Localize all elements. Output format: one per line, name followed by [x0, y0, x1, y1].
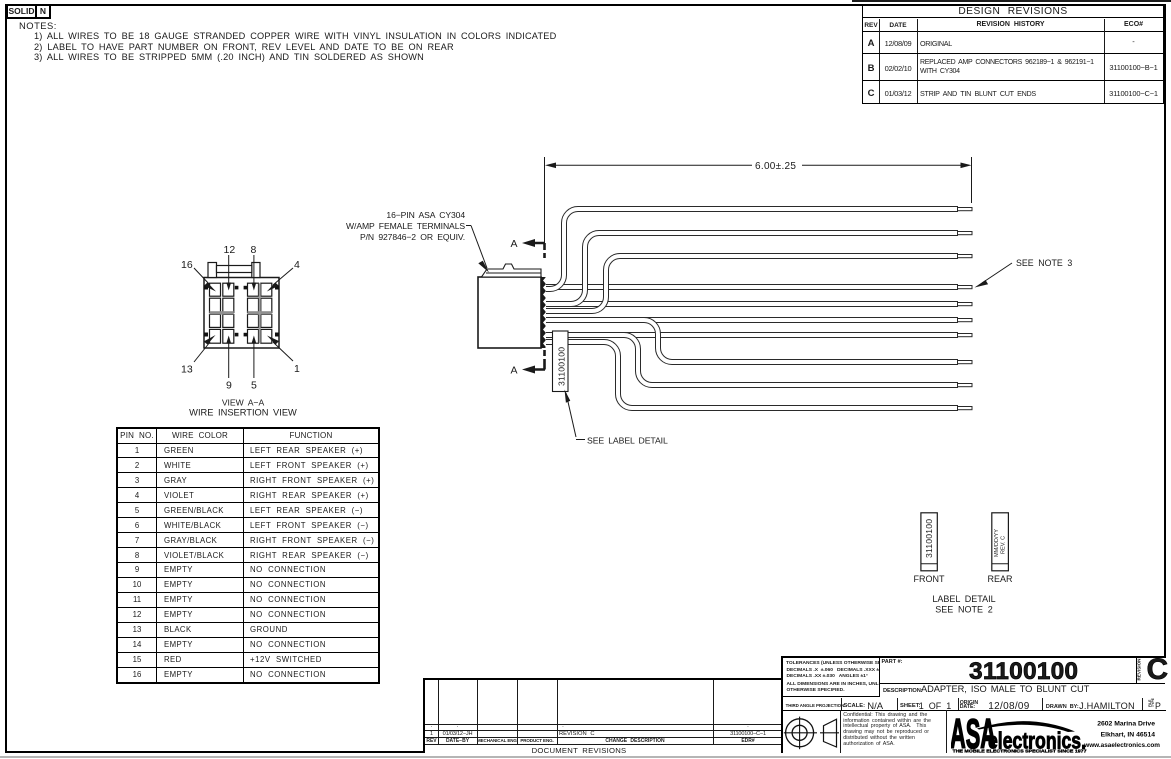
- svg-text:1: 1: [294, 363, 300, 375]
- title block: [781, 656, 1166, 754]
- svg-text:9: 9: [226, 380, 232, 392]
- leader SEE LABEL DETAIL: [565, 390, 668, 446]
- part number cell: [880, 658, 1136, 684]
- DOCUMENT REVISIONS table: [423, 678, 783, 753]
- wire W3 rise to level 256: [545, 256, 958, 311]
- pin number callouts for view A-A: [181, 244, 300, 392]
- connector J1 front view (VIEW A-A): [204, 263, 279, 349]
- top latch tabs: [208, 263, 217, 278]
- scanner edge line bottom: [0, 756, 1171, 758]
- wire W4 straight pin level 287: [545, 284, 958, 290]
- pin 12 label: [224, 244, 236, 291]
- notes: [19, 20, 57, 31]
- row lines: [425, 724, 783, 725]
- svg-text:31100100: 31100100: [557, 347, 567, 386]
- row 1 data: [425, 731, 438, 737]
- polarization keys: [204, 286, 279, 337]
- pin 4 label: [267, 259, 300, 292]
- revision cell: [1136, 658, 1165, 684]
- layer tab SOLID / N: [6, 4, 51, 19]
- wire W1 rise to level 209: [545, 209, 958, 289]
- third angle projection symbol: [783, 712, 840, 753]
- latch on top of connector: [482, 264, 542, 277]
- confidential note: [843, 713, 931, 748]
- svg-text:WIRE INSERTION VIEW: WIRE INSERTION VIEW: [189, 407, 297, 417]
- leader SEE NOTE 3: [975, 258, 1073, 288]
- label detail REAR box: [992, 513, 1009, 571]
- dimension 6.00±.25: [545, 157, 972, 203]
- wire W9 drop to level 385: [545, 335, 958, 385]
- svg-text:SEE NOTE 3: SEE NOTE 3: [1016, 258, 1072, 268]
- description row: [880, 684, 1164, 698]
- column lines: [438, 680, 439, 744]
- bottom row dividers: [840, 710, 841, 754]
- wire W7 straight level 335: [545, 332, 958, 338]
- stripped tinned wire tips: [958, 208, 973, 410]
- wire W8 drop to level 362: [545, 320, 958, 362]
- row 3: [783, 698, 1166, 711]
- svg-text:31100100: 31100100: [924, 519, 934, 558]
- row C: [863, 88, 879, 99]
- pin 13 label: [181, 335, 216, 376]
- DESIGN REVISIONS table: [862, 5, 1164, 104]
- wire W5 straight level 304: [545, 301, 958, 307]
- wire W10 drop to level 408: [545, 342, 958, 408]
- svg-text:FRONT: FRONT: [914, 574, 945, 584]
- label detail FRONT box: [921, 513, 937, 571]
- svg-text:16−PIN ASA CY304: 16−PIN ASA CY304: [386, 210, 465, 220]
- svg-text:P/N 927846−2 OR EQUIV.: P/N 927846−2 OR EQUIV.: [360, 232, 465, 242]
- svg-text:16: 16: [181, 259, 193, 271]
- svg-text:VIEW A−A: VIEW A−A: [222, 398, 265, 408]
- scanner edge line top right: [852, 0, 1171, 2]
- svg-text:12: 12: [224, 244, 236, 256]
- label detail captions: [914, 574, 1013, 584]
- pin 1 label: [267, 336, 300, 376]
- pin 16 label: [181, 259, 216, 292]
- pin 5 label: [251, 336, 257, 392]
- section arrow A top: [511, 238, 546, 250]
- cavity cells right group: [248, 283, 272, 343]
- cavity cells left group: [210, 283, 234, 343]
- faint placeholder dots row: [425, 723, 438, 729]
- svg-text:4: 4: [294, 259, 300, 271]
- pin 9 label: [226, 336, 232, 392]
- svg-text:SEE LABEL DETAIL: SEE LABEL DETAIL: [587, 436, 668, 446]
- svg-text:REV. C: REV. C: [1001, 536, 1007, 554]
- view A-A captions: [189, 398, 297, 418]
- pin function table: [116, 427, 380, 684]
- svg-text:MM/DD/YY: MM/DD/YY: [994, 529, 1000, 557]
- wire W6 straight level 320: [545, 317, 958, 323]
- header row: [425, 738, 438, 744]
- svg-text:5: 5: [251, 380, 257, 392]
- wire W2 rise to level 233: [545, 233, 958, 304]
- section cutting plane line A-A: [544, 157, 546, 370]
- connector P/N callout text: [346, 210, 465, 242]
- pin strip on connector face: [541, 277, 546, 348]
- svg-text:13: 13: [181, 364, 193, 376]
- row A: [863, 32, 1163, 54]
- svg-text:8: 8: [251, 244, 257, 256]
- svg-text:W/AMP FEMALE TERMINALS: W/AMP FEMALE TERMINALS: [346, 221, 465, 231]
- outer housing: [204, 278, 279, 349]
- title row: [425, 746, 733, 755]
- gray center seal bands: [210, 311, 234, 314]
- connector J1 side view body: [478, 264, 546, 348]
- svg-text:A: A: [511, 238, 518, 250]
- section arrow A bottom: [511, 365, 546, 377]
- harness label flag 31100100: [553, 331, 569, 392]
- svg-text:6.00±.25: 6.00±.25: [755, 161, 796, 172]
- tolerances cell: [783, 658, 880, 697]
- ASA electronics logo: [951, 712, 1163, 753]
- pin 8 label: [251, 244, 257, 291]
- leader from callout to connector latch: [466, 226, 489, 273]
- svg-text:SEE NOTE 2: SEE NOTE 2: [935, 605, 992, 615]
- svg-text:A: A: [511, 365, 518, 377]
- vertical col lines: [879, 19, 880, 104]
- svg-text:REAR: REAR: [987, 574, 1013, 584]
- row B: [863, 54, 1163, 81]
- svg-text:LABEL DETAIL: LABEL DETAIL: [932, 594, 995, 604]
